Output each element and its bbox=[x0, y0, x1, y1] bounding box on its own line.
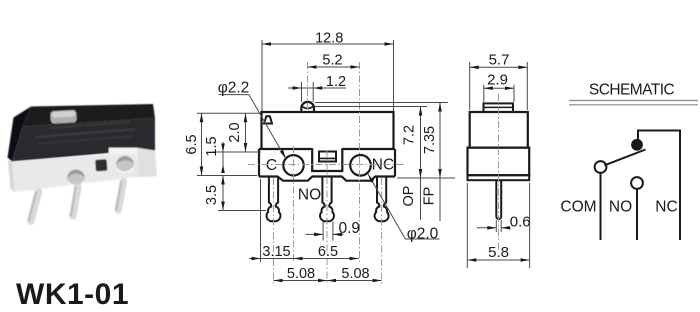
svg-text:3.5: 3.5 bbox=[204, 185, 220, 205]
svg-text:NO: NO bbox=[298, 187, 321, 204]
front view: upper body outline bbox=[262, 112, 394, 149]
svg-text:FP: FP bbox=[422, 187, 438, 206]
arrowheads 6.5 left bbox=[200, 113, 204, 122]
arrowheads 0.9 (outside) bbox=[314, 233, 323, 237]
dim 0.9 line bbox=[306, 233, 324, 235]
photo of microswitch WK1-01 bbox=[8, 104, 158, 221]
svg-text:5.7: 5.7 bbox=[489, 51, 510, 68]
svg-text:1.2: 1.2 bbox=[326, 74, 346, 90]
svg-text:2.9: 2.9 bbox=[487, 71, 508, 88]
photo: pin 3 bbox=[118, 182, 123, 211]
svg-text:φ2.2: φ2.2 bbox=[218, 80, 250, 97]
arrowheads 3.5 bbox=[221, 176, 225, 185]
side view: upper body bbox=[470, 112, 528, 148]
schematic title double rule bbox=[569, 100, 698, 102]
photo: hole left bbox=[67, 170, 85, 186]
photo: pin 1 bbox=[31, 192, 39, 221]
front view: pin 3 (NC) bbox=[375, 177, 389, 222]
svg-text:2.0: 2.0 bbox=[227, 122, 243, 142]
COM pivot circle bbox=[595, 161, 607, 173]
dim 2.9 line bbox=[484, 87, 514, 89]
photo: center dark tab bbox=[95, 159, 107, 171]
centerline: side view vertical bbox=[498, 94, 500, 252]
dim row1 extension bbox=[260, 179, 262, 262]
svg-text:SCHEMATIC: SCHEMATIC bbox=[589, 82, 675, 99]
svg-text:1.5: 1.5 bbox=[204, 136, 220, 156]
front view: base block outline bbox=[259, 149, 395, 177]
centerline: C hole vertical bbox=[293, 146, 295, 262]
svg-text:C: C bbox=[266, 157, 277, 174]
arrowheads row2 bbox=[274, 279, 283, 283]
arrowhead phi2.0 leader bbox=[368, 174, 374, 183]
svg-text:NC: NC bbox=[655, 199, 677, 216]
arrowheads row1 bbox=[252, 257, 261, 261]
arrowheads 0.6 (outside) bbox=[487, 226, 496, 230]
centerline: holes horizontal bbox=[248, 164, 404, 166]
dim 3.5 line bbox=[222, 176, 224, 211]
side view: base block bbox=[468, 148, 530, 176]
arrowheads 2.0 bbox=[244, 113, 248, 122]
dim FP extension line bbox=[315, 102, 448, 104]
dim bottom-right extension of seat line bbox=[397, 177, 455, 179]
centerline: plunger vertical bbox=[307, 62, 309, 111]
dim 5.7 line bbox=[470, 66, 528, 68]
centerline: pin2 vertical bbox=[326, 150, 328, 284]
centerlines bbox=[248, 62, 404, 284]
svg-text:12.8: 12.8 bbox=[315, 31, 343, 47]
dim 7.2/OP line bbox=[420, 107, 422, 221]
svg-text:COM: COM bbox=[560, 199, 596, 216]
photo: plunger button on top bbox=[50, 110, 77, 124]
arrowheads 1.5 (outside) bbox=[221, 144, 225, 153]
side view: plunger bbox=[484, 103, 514, 112]
svg-text:5.8: 5.8 bbox=[488, 244, 509, 261]
arrowheads 2.9 bbox=[484, 86, 493, 90]
photo: body left side face bbox=[8, 107, 32, 162]
svg-text:OP: OP bbox=[401, 186, 417, 207]
svg-text:5.2: 5.2 bbox=[322, 53, 342, 69]
centerline: pin1 vertical bbox=[273, 178, 275, 284]
arrowheads 7.35/FP bbox=[438, 103, 442, 112]
svg-text:NO: NO bbox=[609, 199, 632, 216]
arrowheads 12.8 bbox=[262, 42, 271, 46]
NO contact circle bbox=[631, 177, 643, 189]
photo: hole right bbox=[116, 156, 134, 172]
arrowheads 5.8 bbox=[467, 258, 476, 262]
arrowheads 7.2/OP bbox=[419, 107, 423, 116]
front view: mounting hole C bbox=[283, 155, 303, 175]
svg-text:φ2.0: φ2.0 bbox=[407, 225, 439, 242]
photo: white base front face bbox=[12, 151, 157, 193]
photo: base right side face bbox=[138, 148, 157, 178]
dim 3.5 bottom extension bbox=[218, 210, 266, 212]
front view: plunger dome bbox=[301, 102, 314, 112]
front view: terminal box divider bbox=[319, 157, 336, 159]
wire: COM terminal bbox=[600, 173, 602, 240]
svg-text:WK1-01: WK1-01 bbox=[16, 278, 129, 311]
front view: terminal box bbox=[319, 152, 336, 162]
dim 12.8 line bbox=[262, 43, 394, 45]
front view: OP chord in dome bbox=[302, 106, 313, 108]
dim 5.8 extension lines bbox=[466, 183, 468, 268]
arrowheads 1.2 (outside) bbox=[293, 86, 302, 90]
dim 12.8 extension lines bbox=[261, 40, 263, 111]
dim row1 line (3.15 / 6.5) bbox=[249, 258, 305, 260]
front view: pin 2 (NO) bbox=[320, 177, 334, 222]
svg-text:0.9: 0.9 bbox=[339, 220, 361, 237]
dim phi2.2 leader bbox=[219, 95, 286, 159]
dim 2.0 line bbox=[245, 113, 247, 152]
dim 6.5 left: extension lines bbox=[197, 112, 261, 114]
photo: pin 2 bbox=[73, 187, 78, 216]
svg-text:6.5: 6.5 bbox=[184, 134, 200, 154]
dim 0.6 extension lines bbox=[495, 220, 497, 232]
front view: central pocket bbox=[312, 148, 342, 171]
photo: body top face bbox=[23, 104, 156, 127]
side view: plunger inner line bbox=[484, 106, 514, 108]
front view: mounting hole NC bbox=[350, 155, 371, 176]
wire: NO terminal bbox=[636, 189, 638, 240]
arrowheads 5.2 bbox=[308, 65, 317, 69]
svg-text:7.2: 7.2 bbox=[402, 125, 418, 145]
svg-text:5.08: 5.08 bbox=[341, 266, 369, 282]
NC contact dot bbox=[631, 139, 643, 151]
dim 0.6 line bbox=[477, 227, 496, 229]
front view: index trapezoid mark bbox=[264, 116, 272, 123]
dim 6.5 left line bbox=[201, 113, 203, 175]
photo: base right raised block bbox=[109, 148, 138, 154]
centerline: NC hole vertical bbox=[359, 62, 361, 262]
svg-text:0.6: 0.6 bbox=[510, 213, 531, 230]
arrowheads 5.7 bbox=[470, 66, 479, 70]
front view: pin 1 (C) bbox=[266, 177, 280, 222]
dim 1.2 extension lines bbox=[301, 82, 303, 102]
svg-text:3.15: 3.15 bbox=[262, 244, 290, 260]
dim 7.35/FP line bbox=[439, 103, 441, 222]
svg-text:6.5: 6.5 bbox=[318, 244, 338, 260]
dim 1.5 extension line bbox=[212, 151, 261, 153]
dim 5.2 line bbox=[308, 66, 360, 68]
arrowhead phi2.2 leader bbox=[280, 150, 286, 159]
side view: pin bbox=[496, 180, 501, 219]
wire: NC contact to top rail bbox=[638, 131, 680, 241]
dim OP extension line bbox=[315, 106, 427, 108]
photo: body front face bbox=[12, 118, 155, 162]
dim 1.2 line bbox=[288, 87, 346, 89]
dim 5.8 line bbox=[467, 259, 529, 261]
lever: COM to NC contact bbox=[605, 150, 646, 166]
photo: base left side sliver bbox=[8, 160, 15, 192]
svg-text:5.08: 5.08 bbox=[287, 266, 315, 282]
dim 1.5 line bbox=[222, 142, 224, 173]
dim 0.9 extension lines bbox=[322, 222, 324, 241]
dim phi2.0 leader bbox=[368, 174, 440, 239]
side view: bottom plate bbox=[468, 175, 530, 180]
front view: base bottom edge with feet bbox=[259, 177, 395, 181]
svg-text:7.35: 7.35 bbox=[422, 126, 438, 154]
centerline: pin3 vertical bbox=[381, 178, 383, 284]
dim row2 line (5.08 / 5.08) bbox=[274, 280, 382, 282]
dim 2.9 extension lines bbox=[483, 85, 485, 102]
photo: faint molded lines on front face bbox=[35, 128, 135, 138]
dim 5.7 extension lines bbox=[469, 62, 471, 110]
